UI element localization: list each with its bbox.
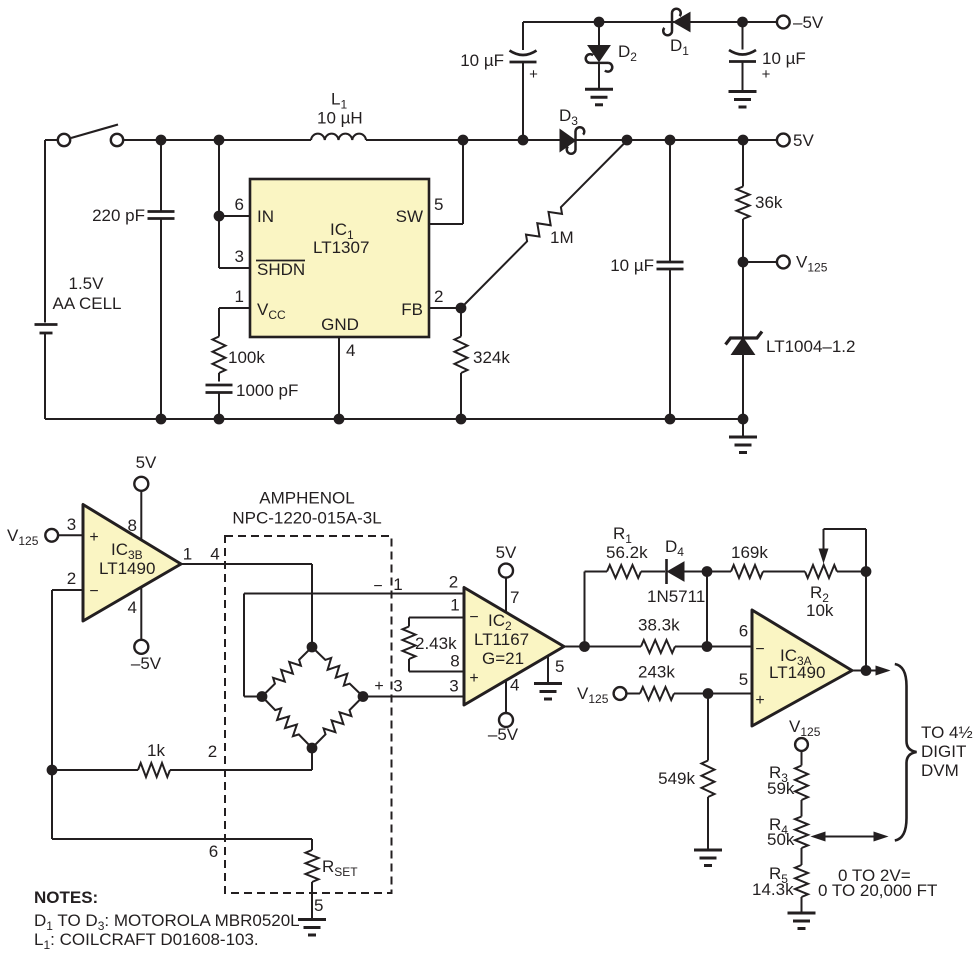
arrow R4 wiper [812, 832, 887, 841]
switch S1 [58, 125, 123, 147]
terminal 5V [777, 131, 815, 150]
svg-text:D2: D2 [618, 42, 637, 64]
capacitor 10uF pump [460, 22, 538, 140]
node pump cap rail [518, 135, 528, 145]
node IN rail [214, 135, 224, 145]
svg-text:220 pF: 220 pF [92, 206, 145, 225]
resistor 243k [638, 663, 675, 701]
svg-text:TO 4½: TO 4½ [921, 723, 973, 742]
svg-text:RSET: RSET [322, 857, 358, 879]
wire 38.3k to IC3A pin6 [675, 646, 752, 648]
capacitor 1000 pF [206, 381, 299, 419]
svg-text:4: 4 [510, 676, 519, 695]
svg-text:AA CELL: AA CELL [53, 294, 122, 313]
svg-text:SHDN: SHDN [257, 260, 305, 279]
svg-text:1000 pF: 1000 pF [236, 381, 298, 400]
svg-text:−: − [755, 641, 764, 658]
ground D2 [585, 89, 613, 105]
wire 100k to 1000pF [218, 373, 220, 382]
resistor 549k [658, 694, 714, 851]
terminal V125 input [7, 526, 58, 548]
node IC2 output [580, 642, 590, 652]
svg-text:100k: 100k [228, 348, 265, 367]
terminal -5V [777, 13, 824, 32]
svg-text:L1: COILCRAFT D01608-103.: L1: COILCRAFT D01608-103. [34, 930, 259, 952]
svg-text:D3: D3 [559, 106, 578, 128]
svg-text:4: 4 [346, 341, 355, 360]
terminal -5V IC2 [488, 713, 519, 744]
svg-text:3: 3 [449, 677, 458, 696]
wire -5V top rail [523, 21, 777, 23]
svg-text:LT1490: LT1490 [99, 559, 155, 578]
svg-text:+: + [469, 670, 478, 687]
ground IC2 pin5 [534, 684, 562, 700]
svg-text:4: 4 [128, 598, 137, 617]
ground divider [788, 913, 816, 929]
arrow output [876, 666, 889, 675]
svg-text:IN: IN [257, 207, 274, 226]
wire inductor to 5V terminal [366, 139, 777, 141]
svg-text:549k: 549k [658, 769, 695, 788]
resistor 1k [52, 741, 312, 777]
node VCC chain bottom [214, 414, 224, 424]
svg-text:36k: 36k [755, 193, 783, 212]
node IC3A output [861, 666, 871, 676]
bridge resistor bottom-left [262, 697, 312, 749]
svg-text:2.43k: 2.43k [415, 634, 457, 653]
svg-text:1: 1 [450, 596, 459, 615]
notes [34, 888, 300, 952]
wire pin8 5V [128, 490, 142, 539]
wire pin7 5V IC2 [506, 577, 519, 613]
svg-text:3: 3 [67, 515, 76, 534]
svg-text:59k: 59k [767, 779, 795, 798]
ground main rail [729, 419, 757, 453]
capacitor 220 pF [92, 140, 174, 419]
node 220pF top [156, 135, 166, 145]
ground RSET [298, 920, 326, 936]
svg-text:38.3k: 38.3k [638, 616, 680, 635]
wire V125 to 243k [627, 693, 641, 695]
svg-text:324k: 324k [473, 348, 510, 367]
wire pin4 -5V IC2 [506, 676, 519, 714]
svg-text:5V: 5V [496, 543, 517, 562]
svg-text:+: + [762, 66, 771, 83]
terminal 5V IC2 [496, 543, 517, 578]
capacitor 10uF output [610, 140, 683, 419]
svg-text:6: 6 [235, 195, 244, 214]
node D2 anode [594, 17, 604, 27]
resistor 2.43k gain set [403, 596, 465, 672]
wire pin5 ref ground [548, 656, 564, 684]
node 10uF -5V filter [738, 17, 748, 27]
wire R2 wiper loop [824, 529, 867, 572]
wire IC2 output row [564, 646, 641, 648]
node 36k top [738, 135, 748, 145]
svg-text:−: − [89, 583, 98, 600]
IC1 LT1307 box [235, 179, 444, 360]
svg-text:V125: V125 [577, 684, 609, 706]
battery B1 1.5V AA cell [35, 274, 122, 333]
op-amp IC3B LT1490 [83, 505, 181, 622]
svg-text:5: 5 [555, 657, 564, 676]
resistor 100k [213, 337, 266, 374]
label divider output [818, 866, 937, 900]
svg-text:243k: 243k [638, 663, 675, 682]
wire battery positive to switch [45, 140, 58, 323]
node bridge left [257, 692, 267, 702]
terminal 5V IC3B [134, 453, 157, 491]
svg-text:FB: FB [401, 300, 423, 319]
resistor RSET [306, 839, 359, 920]
svg-text:+: + [529, 66, 538, 83]
bridge resistor bottom-right [312, 697, 363, 749]
svg-text:V125: V125 [789, 717, 821, 739]
bridge resistor top-right [312, 647, 363, 697]
wire output riser [865, 572, 867, 671]
bridge resistor top-left [262, 647, 312, 697]
capacitor 10uF -5V filter [729, 22, 806, 92]
node FB [456, 303, 466, 313]
svg-text:D1: D1 [670, 36, 689, 58]
svg-text:3: 3 [393, 677, 402, 696]
svg-text:–5V: –5V [793, 13, 824, 32]
wire R2 to output node [837, 571, 866, 573]
node V125 [738, 257, 748, 267]
svg-text:50k: 50k [767, 830, 795, 849]
svg-text:D4: D4 [665, 537, 684, 559]
svg-text:DVM: DVM [921, 761, 959, 780]
node IN pin [214, 211, 224, 221]
svg-text:−: − [373, 578, 382, 595]
resistor R3 59k [767, 751, 808, 800]
svg-text:5: 5 [739, 670, 748, 689]
svg-text:8: 8 [450, 652, 459, 671]
svg-text:14.3k: 14.3k [752, 880, 794, 899]
node bridge bottom [307, 743, 317, 753]
svg-text:NPC-1220-015A-3L: NPC-1220-015A-3L [232, 509, 381, 528]
wire R3 to R4 [801, 800, 803, 817]
node 324k bottom [456, 414, 466, 424]
wire D4 to 169k [684, 571, 731, 573]
wire pin4 -5V [128, 587, 142, 640]
svg-text:5V: 5V [136, 453, 157, 472]
svg-text:−: − [469, 609, 478, 626]
svg-text:1: 1 [183, 545, 192, 564]
wire VCC branch [219, 308, 250, 337]
potentiometer R2 10k [805, 529, 837, 620]
terminal V125 divider [789, 717, 821, 751]
svg-text:–5V: –5V [488, 725, 519, 744]
svg-text:10 µF: 10 µF [610, 256, 654, 275]
svg-text:8: 8 [128, 516, 137, 535]
op-amp IC3A LT1490 [752, 610, 852, 726]
svg-text:0 TO 20,000 FT: 0 TO 20,000 FT [818, 881, 937, 900]
svg-text:+: + [755, 692, 764, 709]
svg-text:1: 1 [393, 575, 402, 594]
wire feedback row left [585, 571, 608, 573]
node D3 cathode [622, 135, 632, 145]
wire bridge bottom to 1k [311, 748, 313, 770]
sensor dashed box [225, 536, 392, 893]
wire IC3B output [181, 545, 312, 648]
wire feedback riser [584, 572, 586, 647]
svg-text:1k: 1k [147, 741, 165, 760]
wire pin2 feedback [52, 569, 83, 839]
svg-text:V125: V125 [7, 526, 39, 548]
svg-text:LT1307: LT1307 [313, 238, 369, 257]
node 10uF out top [665, 135, 675, 145]
label DVM [921, 723, 973, 780]
in-amp IC2 LT1167 [464, 588, 564, 706]
wire IC3A output [852, 670, 878, 672]
diode D1 MBR0520L [663, 9, 690, 58]
potentiometer R4 50k [767, 815, 808, 849]
node SW rail [458, 135, 468, 145]
terminal V125 243k [577, 684, 626, 706]
wire R4 to R5 [801, 848, 803, 865]
node 220pF bottom [156, 414, 166, 424]
node D4 junction [702, 567, 712, 577]
node 1k left [47, 765, 57, 775]
node R2 right [861, 567, 871, 577]
wire IN/SHDN branch [219, 140, 250, 268]
svg-text:1N5711: 1N5711 [647, 587, 705, 606]
resistor 169k [731, 543, 768, 578]
svg-text:6: 6 [209, 842, 218, 861]
resistor R5 14.3k [752, 864, 808, 899]
wire R1 to D4 [641, 571, 665, 573]
ground rail bottom [45, 418, 743, 420]
svg-text:GND: GND [321, 315, 359, 334]
wire pin3 input [58, 515, 83, 535]
diode D4 1N5711 [647, 537, 705, 606]
svg-text:LT1490: LT1490 [769, 663, 825, 682]
svg-text:V125: V125 [796, 253, 828, 275]
wire R5 to ground [801, 897, 803, 913]
svg-text:LT1004–1.2: LT1004–1.2 [766, 337, 855, 356]
wire bridge minus output [244, 573, 464, 697]
svg-text:AMPHENOL: AMPHENOL [259, 489, 354, 508]
svg-text:1.5V: 1.5V [69, 274, 105, 293]
svg-text:4: 4 [210, 545, 219, 564]
node bridge top [307, 642, 317, 652]
svg-text:3: 3 [235, 247, 244, 266]
svg-text:+: + [89, 529, 98, 546]
wire 243k to IC3A pin5 [674, 670, 752, 694]
resistor 36k [737, 140, 783, 262]
svg-text:10 µH: 10 µH [317, 109, 363, 128]
svg-text:7: 7 [510, 588, 519, 607]
svg-text:NOTES:: NOTES: [34, 888, 98, 907]
terminal V125 [743, 253, 828, 275]
svg-text:1M: 1M [550, 228, 574, 247]
svg-text:6: 6 [739, 622, 748, 641]
svg-text:2: 2 [449, 573, 458, 592]
diode D3 MBR0520L [559, 106, 584, 154]
sensor label [232, 489, 381, 528]
wire SW pin to rail [429, 140, 463, 224]
brace to DVM [895, 664, 917, 841]
svg-text:2: 2 [67, 569, 76, 588]
wire RSET row [52, 839, 312, 861]
node bridge right [358, 692, 368, 702]
node ground rail right end [738, 414, 748, 424]
wire 169k to R2 [763, 571, 805, 573]
svg-text:169k: 169k [731, 543, 768, 562]
node 10uF out bottom [665, 414, 675, 424]
svg-text:10 µF: 10 µF [460, 51, 504, 70]
diode D2 MBR0520L [586, 22, 638, 89]
resistor 324k [455, 308, 511, 419]
svg-text:5V: 5V [793, 131, 814, 150]
node 38.3k right [702, 642, 712, 652]
node 243k junction [703, 689, 713, 699]
resistor 1M [461, 141, 627, 309]
svg-text:5: 5 [314, 896, 323, 915]
svg-text:G=21: G=21 [482, 649, 524, 668]
svg-text:2: 2 [208, 742, 217, 761]
svg-text:1: 1 [235, 287, 244, 306]
svg-text:2: 2 [434, 287, 443, 306]
wire bridge plus output [363, 677, 464, 697]
terminal -5V IC3B [131, 640, 162, 673]
svg-text:56.2k: 56.2k [606, 543, 648, 562]
resistor R1 56.2k [606, 524, 648, 578]
svg-text:+: + [374, 678, 383, 695]
wire junction vertical [706, 572, 708, 647]
zener LT1004-1.2 [726, 262, 856, 419]
svg-text:–5V: –5V [131, 654, 162, 673]
node GND pin bottom [334, 414, 344, 424]
svg-text:SW: SW [396, 207, 423, 226]
ground -5V filter cap [729, 92, 757, 108]
wire battery negative to ground rail [44, 334, 46, 419]
wire switch to inductor [123, 139, 311, 141]
wire GND pin 4 [338, 337, 340, 419]
inductor L1 10uH [311, 90, 366, 141]
wire pin6 label [739, 622, 748, 641]
svg-text:LT1167: LT1167 [474, 630, 529, 649]
svg-text:10k: 10k [806, 601, 834, 620]
svg-text:DIGIT: DIGIT [921, 742, 966, 761]
resistor 38.3k [638, 616, 680, 654]
ground 549k [694, 850, 722, 866]
wire FB pin [429, 307, 461, 309]
svg-text:5: 5 [434, 195, 443, 214]
